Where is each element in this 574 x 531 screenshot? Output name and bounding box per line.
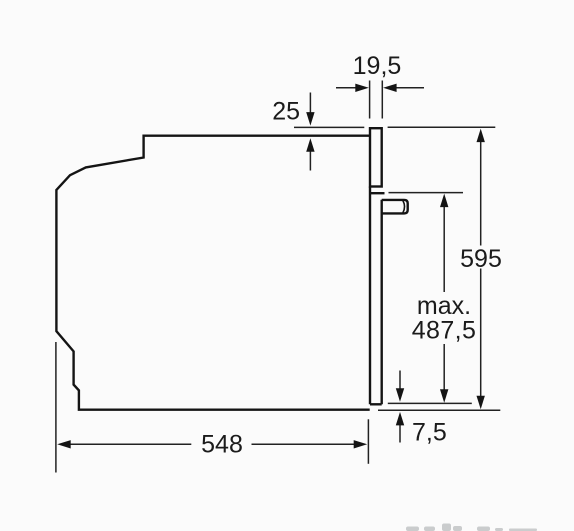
- dimension 19,5: arrow tails: [336, 87, 424, 89]
- door handle: [382, 200, 408, 214]
- dimension 595: dimension line: [480, 134, 482, 403]
- dimension 25: extension line (panel top level): [294, 126, 364, 128]
- dimension 25: arrow tails: [309, 93, 311, 171]
- dimension 25: arrowheads: [306, 112, 314, 152]
- svg-text:25: 25: [272, 98, 300, 126]
- dimension 7,5: arrow tails: [399, 371, 401, 443]
- dimension 595: arrowheads: [477, 129, 485, 410]
- svg-text:595: 595: [460, 245, 502, 273]
- dimension max. 487,5: top extension line: [389, 192, 464, 194]
- dimension max. 487,5: arrowheads: [440, 194, 448, 403]
- dimension 548: arrowheads: [57, 440, 367, 448]
- control panel strip (19,5 thick): [370, 128, 382, 186]
- dimension 19,5: arrowheads: [355, 84, 396, 92]
- svg-text:487,5: 487,5: [412, 317, 477, 345]
- dimension 548: right extension line: [367, 419, 369, 464]
- dimension 7,5: upper reference line (door bottom level): [388, 402, 472, 404]
- dimension 548: left extension line: [55, 342, 57, 473]
- oven body outline (side view): [56, 136, 369, 410]
- dimension 19,5: extension lines: [370, 81, 383, 119]
- dimension max. 487,5: dimension line: [443, 199, 445, 397]
- svg-text:548: 548: [201, 431, 243, 459]
- svg-text:19,5: 19,5: [353, 52, 402, 80]
- dimension 7,5: arrowheads: [396, 388, 404, 425]
- dimension 595: top extension line: [388, 126, 496, 128]
- svg-text:7,5: 7,5: [412, 419, 447, 447]
- faint cropped watermark text at bottom edge: [406, 524, 537, 531]
- dimension 548: dimension line: [63, 443, 361, 445]
- dimension 595: bottom extension line: [378, 409, 500, 411]
- oven door (front edges and bottom): [369, 187, 385, 405]
